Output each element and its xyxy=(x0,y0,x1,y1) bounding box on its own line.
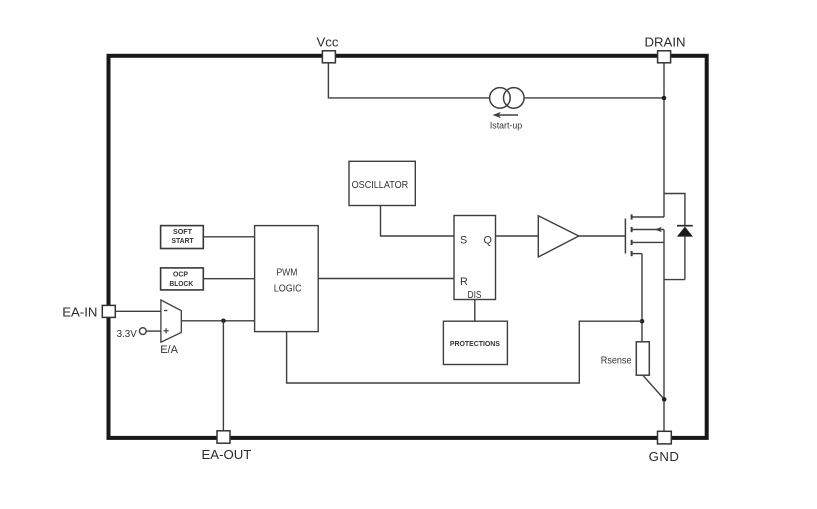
wire buffer to gate xyxy=(579,235,626,237)
svg-text:Istart-up: Istart-up xyxy=(490,120,522,130)
wire oscillator to latch S input xyxy=(381,206,455,237)
svg-text:Rsense: Rsense xyxy=(601,355,632,366)
sense stub xyxy=(632,253,642,255)
wire EA-IN to inverting input xyxy=(115,310,161,312)
wire PWM to latch R input xyxy=(318,278,454,280)
resistor Rsense xyxy=(636,342,649,375)
pin pad GND xyxy=(658,431,672,444)
wire junction to EA-OUT pad xyxy=(222,321,224,431)
svg-text:OCP: OCP xyxy=(173,269,188,278)
wire 3.3V to non-inverting input xyxy=(146,330,161,332)
minus input mark xyxy=(164,310,167,312)
gate line xyxy=(624,219,626,254)
svg-text:LOGIC: LOGIC xyxy=(274,284,302,295)
svg-text:S: S xyxy=(460,234,467,246)
svg-text:3.3V: 3.3V xyxy=(117,328,137,340)
svg-text:SOFT: SOFT xyxy=(173,227,193,236)
wire drain to diode cathode branch xyxy=(664,194,685,226)
drain stub xyxy=(632,216,664,218)
svg-text:GND: GND xyxy=(649,449,680,464)
svg-text:PWM: PWM xyxy=(276,268,297,279)
IC boundary xyxy=(109,56,707,438)
wire source node to diode anode xyxy=(664,279,685,281)
pin pad EA-OUT xyxy=(217,431,230,443)
svg-text:DRAIN: DRAIN xyxy=(644,35,685,50)
svg-text:OSCILLATOR: OSCILLATOR xyxy=(352,180,409,191)
body stub with arrow xyxy=(632,229,664,231)
diode D1 xyxy=(677,226,693,280)
svg-text:Q: Q xyxy=(484,234,492,246)
node sense junction xyxy=(640,319,645,324)
oscillator box xyxy=(349,161,415,205)
buffer U4 xyxy=(538,216,579,257)
pin pad Vcc xyxy=(322,51,335,63)
node GND junction xyxy=(662,397,667,402)
svg-text:R: R xyxy=(460,276,468,288)
SR latch U3 xyxy=(454,216,496,300)
wire OCP block to PWM logic xyxy=(203,278,254,280)
channel dashes xyxy=(631,214,633,256)
wire DRAIN down to MOSFET drain xyxy=(663,63,665,217)
svg-text:EA-IN: EA-IN xyxy=(62,304,97,319)
svg-text:START: START xyxy=(171,236,194,245)
svg-text:PROTECTIONS: PROTECTIONS xyxy=(450,339,500,348)
svg-text:Vcc: Vcc xyxy=(317,35,339,50)
wire soft start to PWM logic xyxy=(203,236,254,238)
svg-text:E/A: E/A xyxy=(160,344,178,356)
wire Rsense to GND rail xyxy=(643,375,665,399)
reference 3.3V terminal xyxy=(139,328,146,335)
wire current source to drain line xyxy=(524,97,664,99)
wire source/body to GND rail xyxy=(663,230,665,433)
source stub xyxy=(632,241,664,243)
transistor Q1 MOSFET xyxy=(625,214,664,256)
wire latch Q to buffer xyxy=(496,235,539,237)
OCP block box xyxy=(161,268,204,290)
node EA-OUT junction xyxy=(221,319,226,324)
PWM logic box U2 xyxy=(255,226,319,332)
plus input mark xyxy=(164,328,169,333)
node drain junction xyxy=(662,96,667,101)
wire current sense feedback to PWM xyxy=(287,321,642,383)
pin pad EA-IN xyxy=(102,305,115,317)
wire E/A output to PWM xyxy=(181,320,254,322)
protections box xyxy=(443,321,507,364)
wire sense to Rsense xyxy=(641,254,643,342)
arrow Istart-up direction xyxy=(493,112,518,118)
current source I1 xyxy=(490,88,524,109)
svg-text:EA-OUT: EA-OUT xyxy=(201,447,251,462)
body arrowhead xyxy=(655,227,662,233)
wire Vcc to current source xyxy=(328,63,489,98)
error amp E/A xyxy=(161,300,181,342)
pin pad DRAIN xyxy=(658,51,671,63)
soft start box xyxy=(161,226,204,249)
wire latch DIS to protections xyxy=(474,300,476,322)
svg-text:BLOCK: BLOCK xyxy=(169,279,194,288)
